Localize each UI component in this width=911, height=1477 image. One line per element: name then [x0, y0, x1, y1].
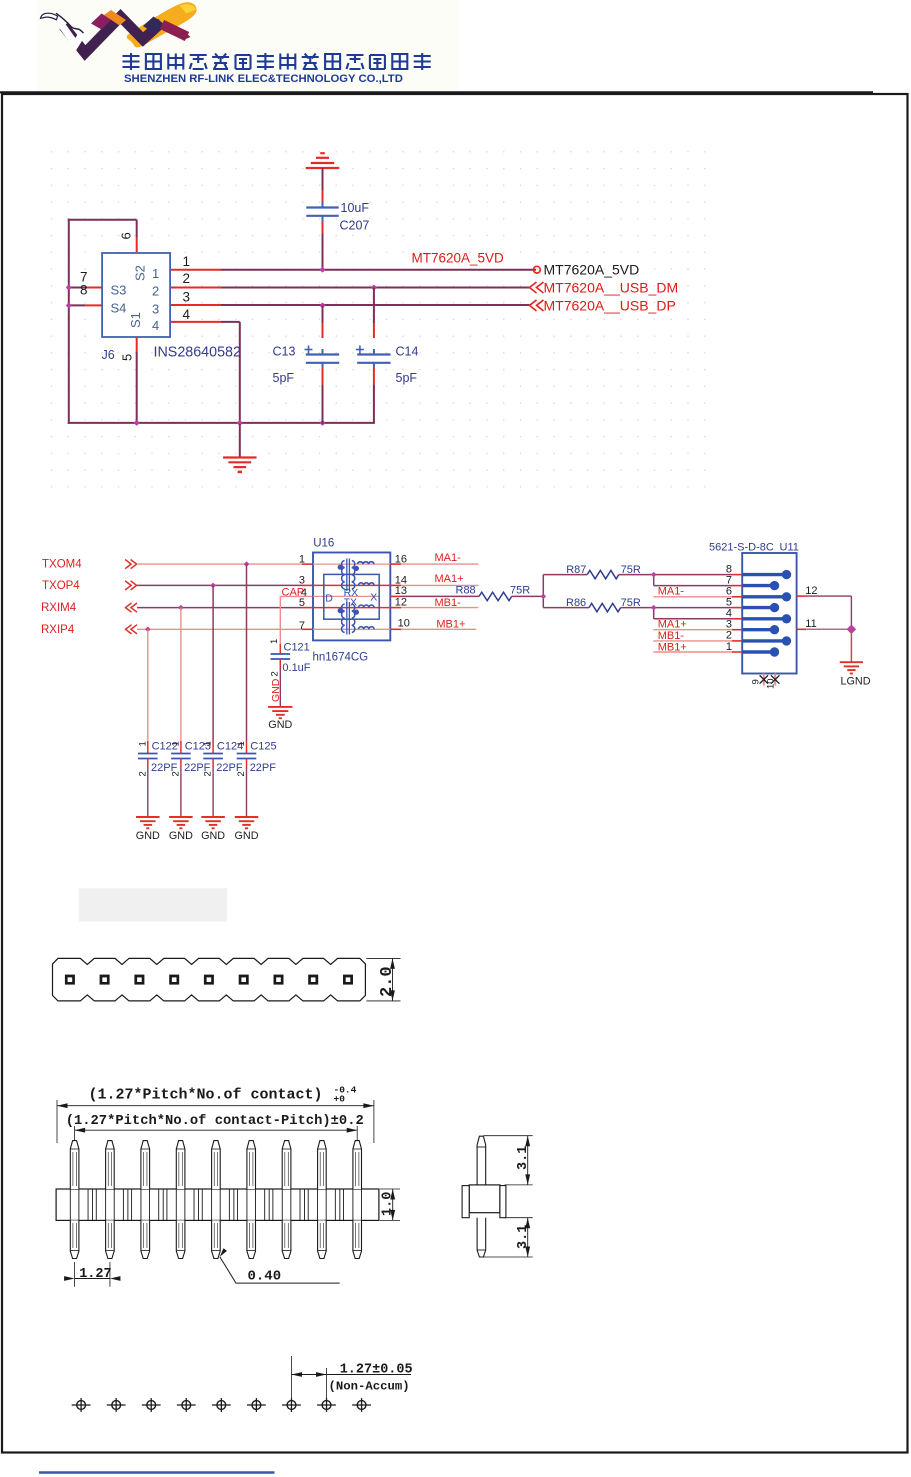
svg-text:1: 1	[137, 741, 148, 746]
wire drop to C122	[147, 629, 149, 741]
wire to R87	[543, 574, 587, 576]
header pin 8 (side view)	[318, 1141, 327, 1189]
svg-text:75R: 75R	[510, 584, 530, 596]
svg-text:13: 13	[395, 585, 407, 597]
wire pin5->pin4 drop	[653, 608, 655, 619]
svg-text:GND: GND	[169, 830, 193, 842]
svg-text:0.1uF: 0.1uF	[282, 662, 310, 674]
company logo	[37, 0, 458, 90]
svg-text:C14: C14	[396, 345, 419, 359]
capacitor C125	[246, 741, 248, 754]
wire drop to C125	[246, 564, 248, 741]
header pin 7 (top view)	[274, 975, 284, 985]
transformer winding (bottom)	[342, 604, 345, 632]
port chevron RXIM4	[126, 603, 138, 612]
svg-text:D: D	[325, 593, 333, 605]
wire row7 inside U16	[313, 628, 390, 630]
svg-text:S4: S4	[111, 301, 127, 316]
footprint hole 6	[252, 1401, 261, 1410]
wire drop to C123	[180, 608, 182, 741]
wire MA1- stub (pin16)	[390, 563, 401, 565]
svg-text:hn1674CG: hn1674CG	[313, 652, 369, 664]
svg-text:S1: S1	[128, 312, 143, 328]
svg-text:3: 3	[152, 302, 159, 317]
svg-text:U16: U16	[313, 538, 334, 550]
port chevron RXIP4	[126, 625, 138, 634]
wire MB1- to U11	[653, 640, 732, 642]
header pin 3 (top view)	[134, 975, 144, 985]
wire R88 to junction	[512, 595, 544, 597]
svg-text:LGND: LGND	[841, 676, 871, 688]
header pin 9 (top view)	[343, 975, 353, 985]
wire RXIM4 row	[137, 607, 302, 609]
wire MB1+ to U11	[653, 651, 732, 653]
svg-text:C13: C13	[273, 345, 296, 359]
svg-text:GND: GND	[136, 830, 160, 842]
pin 4 stub	[170, 321, 221, 323]
svg-text:4: 4	[152, 318, 159, 333]
svg-text:GND: GND	[235, 830, 259, 842]
transformer U16 body	[313, 553, 390, 641]
body segment lines	[87, 1189, 89, 1220]
svg-text:S2: S2	[133, 265, 148, 281]
dimension 1.27	[74, 1262, 76, 1287]
node junction C14/row2	[371, 284, 377, 290]
footprint hole 4	[182, 1401, 191, 1410]
capacitor C124	[212, 741, 214, 754]
wire USB_DM row	[221, 287, 530, 289]
svg-text:1.27±0.05: 1.27±0.05	[340, 1363, 413, 1378]
svg-text:1: 1	[183, 254, 191, 269]
wire to ground	[239, 424, 241, 458]
svg-text:+0: +0	[334, 1094, 346, 1105]
single pin side view	[477, 1136, 486, 1185]
svg-text:3.1: 3.1	[516, 1225, 531, 1249]
header pin 6 (top view)	[239, 975, 249, 985]
svg-text:X: X	[370, 592, 377, 604]
wire drop to C124	[212, 585, 214, 741]
ground (C122)	[136, 816, 160, 818]
ground (C124)	[201, 816, 225, 818]
port MT7620A__USB_DM	[530, 282, 544, 293]
header pin 3 (side view)	[141, 1141, 150, 1189]
node junction RXIM4	[178, 605, 184, 611]
dimension 1.27±0.05	[290, 1356, 292, 1399]
wire R86 to U11 pin5	[621, 607, 732, 609]
svg-text:2: 2	[170, 771, 181, 776]
node junction C207/row1	[319, 267, 325, 273]
U11 pin 10 (no connect)	[774, 674, 776, 686]
svg-text:22PF: 22PF	[250, 762, 277, 774]
svg-text:J6: J6	[102, 348, 115, 362]
svg-text:10: 10	[766, 678, 777, 689]
svg-text:8: 8	[80, 283, 88, 298]
capacitor C121	[271, 653, 291, 655]
node junction pin7	[66, 284, 72, 290]
svg-text:5pF: 5pF	[396, 371, 418, 385]
footprint hole 3	[147, 1401, 156, 1410]
node junction pin5/bottom	[134, 420, 140, 426]
svg-text:RXIP4: RXIP4	[41, 624, 75, 636]
svg-text:1.0: 1.0	[381, 1192, 396, 1216]
svg-text:MB1+: MB1+	[436, 619, 465, 631]
resistor R87	[587, 570, 619, 578]
wire MA1+ to U11	[653, 629, 732, 631]
capacitor C122	[147, 741, 149, 754]
resistor R88	[479, 592, 512, 600]
ground LGND	[840, 661, 863, 663]
pin 8 stub	[69, 304, 86, 306]
grid dots (sheet background)	[51, 151, 706, 488]
svg-text:RXIM4: RXIM4	[41, 602, 77, 614]
header pin 1 (top view)	[65, 975, 75, 985]
node junction RXIP4	[145, 626, 151, 632]
dimension 1.0	[380, 1188, 400, 1190]
pin header top view body	[53, 958, 366, 1001]
wire MB1- stub (pin12)	[390, 607, 401, 609]
svg-text:2.0: 2.0	[378, 966, 397, 997]
wire TXOP4 row	[137, 584, 302, 586]
wire pin13 to R88	[390, 595, 401, 597]
connector J6 body	[102, 253, 170, 337]
ground (bottom of J6 circuit)	[223, 456, 256, 458]
U16 inner frame	[324, 574, 379, 619]
svg-text:12: 12	[805, 585, 817, 597]
svg-text:9: 9	[751, 679, 762, 684]
U11 pin contacts	[742, 570, 791, 657]
node junction TXOM4	[244, 561, 250, 567]
pin 2 stub	[170, 287, 221, 289]
svg-text:1.27: 1.27	[79, 1267, 111, 1282]
node junction C13/bottom	[319, 420, 325, 426]
svg-text:GND: GND	[268, 719, 292, 731]
wire row5 inside U16	[313, 607, 390, 609]
svg-text:3.1: 3.1	[516, 1146, 531, 1170]
svg-text:1: 1	[299, 553, 305, 565]
footprint hole 7	[287, 1401, 296, 1410]
svg-text:(Non-Accum): (Non-Accum)	[329, 1379, 410, 1393]
wire net CAP (pin4 to C121)	[280, 595, 313, 597]
svg-text:5621-S-D-8C: 5621-S-D-8C	[709, 541, 774, 553]
capacitor C14	[373, 288, 375, 324]
port chevron TXOM4	[125, 560, 137, 569]
wire row3 inside U16	[313, 584, 390, 586]
resistor R86	[589, 603, 621, 611]
wire pin11	[797, 628, 806, 630]
svg-text:12: 12	[395, 596, 407, 608]
capacitor C123	[180, 741, 182, 754]
wire pin4 to ground corner	[221, 321, 240, 323]
svg-text:MT7620A__USB_DM: MT7620A__USB_DM	[544, 280, 679, 296]
svg-text:3: 3	[183, 289, 191, 304]
svg-text:10uF: 10uF	[341, 201, 370, 215]
U11 pin 9 (no connect)	[763, 674, 765, 686]
wire row1 inside U16	[313, 563, 390, 565]
header pin 8 (top view)	[308, 975, 318, 985]
svg-text:5: 5	[120, 354, 135, 361]
svg-text:TX: TX	[344, 597, 357, 609]
wire bottom bus	[68, 422, 374, 424]
svg-text:C125: C125	[250, 741, 276, 753]
node junction pin5	[651, 605, 657, 611]
svg-text:2: 2	[137, 771, 148, 776]
dimension 3.1 (bottom)	[505, 1217, 533, 1219]
dimension 3.1 (top)	[484, 1135, 533, 1137]
node junction R88	[540, 594, 546, 600]
node junction pin8	[651, 572, 657, 578]
single pin body	[469, 1185, 500, 1213]
header pin 7 (side view)	[282, 1141, 291, 1189]
pin 6 stub	[136, 237, 138, 252]
svg-text:R88: R88	[456, 584, 476, 596]
svg-text:MT7620A_5VD: MT7620A_5VD	[544, 262, 640, 278]
svg-text:MT7620A_5VD: MT7620A_5VD	[412, 251, 505, 266]
pin header body (side view)	[56, 1189, 379, 1220]
wire pin6 drop	[136, 220, 138, 237]
wire pin8->pin7 drop	[653, 575, 655, 586]
svg-text:MA1-: MA1-	[658, 586, 685, 598]
wire RXIP4 row	[137, 628, 302, 630]
svg-text:2: 2	[270, 671, 281, 676]
svg-text:MB1-: MB1-	[435, 597, 462, 609]
wire VBUS left loop vertical	[68, 219, 70, 424]
wire TXOM4 row	[137, 563, 302, 565]
svg-text:2: 2	[183, 271, 191, 286]
header pin 6 (side view)	[247, 1141, 256, 1189]
svg-text:(1.27*Pitch*No.of contact): (1.27*Pitch*No.of contact)	[89, 1087, 323, 1104]
dimension 2.0	[366, 957, 400, 959]
connector U11 body	[742, 553, 796, 674]
svg-text:C121: C121	[284, 642, 310, 654]
port MT7620A__USB_DP	[530, 300, 544, 311]
wire pin5 drop	[136, 335, 138, 352]
svg-text:INS28640582: INS28640582	[154, 345, 241, 361]
svg-text:5pF: 5pF	[273, 371, 295, 385]
svg-text:3: 3	[299, 574, 305, 586]
capacitor C13	[322, 305, 324, 323]
wire junction vertical (R88 node)	[542, 575, 544, 608]
wire top horizontal to pin6	[68, 219, 137, 221]
svg-text:(1.27*Pitch*No.of contact-Pitc: (1.27*Pitch*No.of contact-Pitch)±0.2	[66, 1113, 364, 1129]
footer rule (blue)	[39, 1471, 275, 1474]
node junction LGND	[847, 624, 857, 634]
ground (C125)	[235, 816, 259, 818]
wire row4 inside U16	[313, 595, 379, 597]
svg-text:7: 7	[726, 574, 732, 586]
company name (Chinese)	[123, 53, 431, 70]
port chevron TXOP4	[125, 581, 137, 590]
wire MA1+ stub (pin14)	[390, 584, 401, 586]
svg-text:MB1+: MB1+	[658, 641, 687, 653]
svg-text:MT7620A__USB_DP: MT7620A__USB_DP	[544, 297, 676, 313]
header pin 2 (top view)	[100, 975, 110, 985]
node junction C13/row3	[319, 302, 325, 308]
svg-text:7: 7	[299, 620, 305, 632]
ground (C123)	[169, 816, 193, 818]
svg-text:GND: GND	[270, 678, 282, 702]
svg-text:TXOM4: TXOM4	[42, 559, 82, 571]
footprint hole 1	[77, 1401, 86, 1410]
svg-text:S3: S3	[111, 283, 127, 298]
svg-text:MB1-: MB1-	[658, 630, 685, 642]
header pin 2 (side view)	[106, 1141, 115, 1189]
pin 1 stub	[170, 269, 221, 271]
svg-text:MA1-: MA1-	[435, 552, 462, 564]
node junction ground/bottom	[237, 420, 243, 426]
svg-text:1: 1	[726, 641, 732, 653]
ground (C121)	[268, 706, 292, 708]
wire MB1+ stub (pin10)	[390, 628, 401, 630]
footprint hole 8	[322, 1401, 331, 1410]
svg-text:1: 1	[152, 266, 159, 281]
transformer winding (top)	[342, 561, 345, 589]
footprint hole 5	[217, 1401, 226, 1410]
svg-text:2: 2	[152, 284, 159, 299]
header pin 5 (top view)	[204, 975, 214, 985]
wire to R86	[543, 607, 589, 609]
svg-text:0.40: 0.40	[248, 1269, 282, 1285]
header pin 4 (side view)	[176, 1141, 185, 1189]
svg-text:R86: R86	[566, 597, 586, 609]
footprint hole 2	[112, 1401, 121, 1410]
svg-text:SHENZHEN RF-LINK ELEC&TECHNOLO: SHENZHEN RF-LINK ELEC&TECHNOLOGY CO.,LTD	[124, 73, 403, 85]
svg-text:1: 1	[236, 741, 247, 746]
svg-text:5: 5	[299, 597, 305, 609]
svg-text:11: 11	[805, 618, 816, 630]
capacitor C207	[322, 168, 324, 190]
svg-text:2: 2	[236, 771, 247, 776]
svg-text:3: 3	[726, 619, 732, 631]
svg-text:2: 2	[203, 771, 214, 776]
svg-text:GND: GND	[201, 830, 225, 842]
svg-text:1: 1	[170, 741, 181, 746]
wire R87 to U11 pin8	[619, 574, 732, 576]
node junction TXOP4	[210, 583, 216, 589]
svg-text:TXOP4: TXOP4	[42, 580, 80, 592]
leader 0.40	[218, 1248, 227, 1258]
header pin 4 (top view)	[169, 975, 179, 985]
header pin 5 (side view)	[212, 1141, 221, 1189]
ground (top, at C207)	[320, 152, 325, 154]
svg-text:R87: R87	[566, 564, 586, 576]
svg-text:6: 6	[119, 232, 134, 239]
wire MT7620A_5VD row	[221, 269, 536, 271]
svg-text:1: 1	[269, 639, 280, 644]
header pin 9 (side view)	[353, 1141, 362, 1189]
power port circle MT7620A_5VD	[534, 266, 541, 273]
footprint hole 9	[357, 1401, 366, 1410]
header pin 1 (side view)	[70, 1141, 79, 1189]
node junction pin8	[66, 302, 72, 308]
svg-text:4: 4	[183, 307, 191, 322]
svg-text:5: 5	[726, 596, 732, 608]
svg-text:1: 1	[203, 741, 214, 746]
pin 7 stub	[69, 287, 86, 289]
wire MA1- to U11	[653, 596, 732, 598]
wire pin12	[797, 595, 806, 597]
placeholder gray block	[79, 888, 227, 921]
wire USB_DP row	[221, 304, 530, 306]
svg-text:MA1+: MA1+	[658, 618, 687, 630]
pin 3 stub	[170, 304, 221, 306]
svg-text:C207: C207	[340, 219, 370, 233]
svg-text:10: 10	[398, 618, 410, 630]
svg-text:MA1+: MA1+	[435, 573, 464, 585]
svg-text:U11: U11	[780, 541, 799, 553]
wire to LGND	[850, 629, 852, 662]
